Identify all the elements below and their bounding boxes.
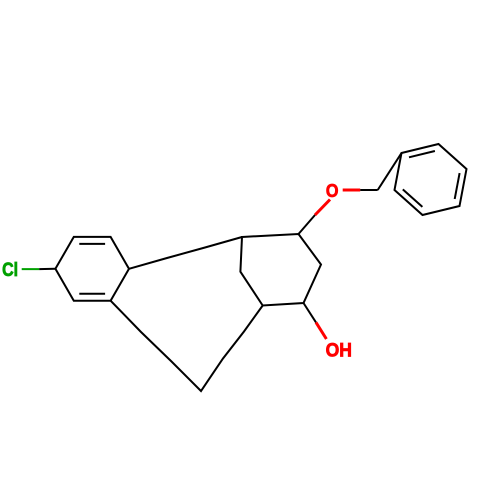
benzyl phenyl ring xyxy=(395,144,467,215)
CH2-phenyl bond xyxy=(378,153,402,190)
aromatic inner line top (left ring) xyxy=(79,243,105,245)
central saturated ring xyxy=(240,234,321,306)
O-CH2 bond (red half) xyxy=(343,189,361,192)
aromatic inner lines (right ring) xyxy=(409,151,435,157)
chlorophenyl benzene ring xyxy=(55,237,129,301)
C-OH bond (red half) xyxy=(316,322,326,339)
C-OH bond (black half) xyxy=(304,303,317,322)
svg-text:OH: OH xyxy=(326,339,352,361)
C-O bond to ether O (red half) xyxy=(315,200,330,216)
svg-text:Cl: Cl xyxy=(2,259,18,281)
Cl-C bond (black half) xyxy=(39,268,55,270)
C-O bond to ether O (black half) xyxy=(299,215,316,234)
aromatic inner line bottom (left ring) xyxy=(79,293,105,295)
Cl-C bond (green half) xyxy=(22,268,40,270)
O-CH2 bond (black half) xyxy=(360,189,378,191)
svg-text:O: O xyxy=(326,180,339,201)
ethylene chain to macrocycle (upper) xyxy=(129,237,242,269)
lower macrocycle chain xyxy=(111,301,263,391)
